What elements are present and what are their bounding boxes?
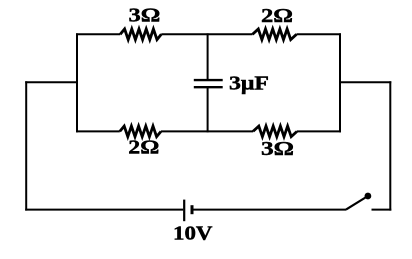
wire right contact xyxy=(372,209,392,211)
wire left connector xyxy=(25,81,78,83)
wire top left segment xyxy=(76,33,120,35)
wire bottom middle xyxy=(193,209,346,211)
wire bottom inner right segment xyxy=(297,130,341,132)
svg-text:3μF: 3μF xyxy=(229,73,269,95)
svg-text:2Ω: 2Ω xyxy=(128,137,159,159)
wire outer left vertical xyxy=(25,81,27,210)
switch lever xyxy=(346,196,368,210)
wire middle vertical upper xyxy=(207,33,209,80)
switch contact dot xyxy=(365,193,372,200)
resistor 3ohm top-left zigzag xyxy=(120,29,161,40)
svg-text:3Ω: 3Ω xyxy=(261,138,294,160)
svg-text:3Ω: 3Ω xyxy=(129,4,161,26)
resistor 2ohm bottom-left zigzag xyxy=(120,126,161,137)
wire bottom left xyxy=(25,209,183,211)
wire inner right vertical xyxy=(339,33,341,132)
resistor 2ohm top-right zigzag xyxy=(253,29,297,40)
wire outer right vertical xyxy=(389,81,391,210)
battery 10V long plate xyxy=(183,200,185,222)
battery 10V short plate xyxy=(191,205,194,214)
wire top right segment xyxy=(297,33,342,35)
wire middle vertical lower xyxy=(207,87,209,132)
wire bottom inner middle segment xyxy=(161,130,253,132)
svg-text:2Ω: 2Ω xyxy=(261,5,293,27)
resistor 3ohm bottom-right zigzag xyxy=(253,126,297,137)
wire right connector xyxy=(339,81,391,83)
svg-text:10V: 10V xyxy=(173,222,213,244)
wire inner left vertical xyxy=(76,33,78,132)
wire bottom inner left segment xyxy=(76,130,120,132)
capacitor C 3uF plates xyxy=(194,80,223,87)
wire top middle segment xyxy=(161,33,252,35)
